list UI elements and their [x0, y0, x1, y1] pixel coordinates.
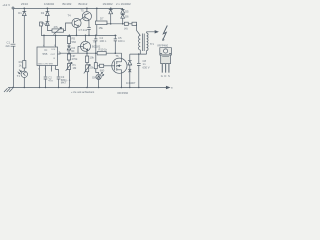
diode D7	[110, 7, 112, 9]
IC labels	[43, 48, 48, 56]
wire	[96, 8, 98, 21]
svg-text:G: G	[161, 74, 163, 78]
TO220 body	[161, 55, 171, 64]
svg-text:15k: 15k	[99, 26, 104, 30]
svg-text:1N4002: 1N4002	[103, 2, 114, 6]
labels	[2, 2, 131, 7]
svg-text:+12 V: +12 V	[2, 3, 10, 7]
zener D1	[22, 8, 26, 61]
wire HT output arrow	[147, 32, 158, 33]
svg-text:100 n: 100 n	[118, 39, 125, 43]
phototransistor T1	[21, 71, 27, 77]
svg-text:OUT: OUT	[51, 54, 56, 56]
resistor R7	[68, 52, 70, 54]
svg-text:BC182: BC182	[63, 2, 72, 6]
trimmer P1	[52, 29, 64, 32]
node rail junction	[47, 7, 49, 9]
LED D8	[96, 69, 99, 75]
mosfet T6	[112, 58, 127, 73]
wire wiper to T4 base	[64, 23, 72, 31]
svg-text:T3*T40: T3*T40	[67, 51, 75, 53]
svg-text:D5: D5	[125, 9, 129, 13]
TO220 tab	[160, 48, 172, 55]
wire	[23, 68, 25, 71]
bottom rail ground	[8, 87, 169, 89]
capacitor C9 stub	[40, 26, 42, 35]
svg-text:Tr1: Tr1	[150, 42, 154, 46]
IC1 555	[37, 47, 58, 66]
transistor T3	[81, 41, 91, 51]
svg-text:T6: T6	[115, 54, 119, 58]
resistor R8	[86, 56, 89, 63]
capacitor C6	[95, 53, 97, 62]
trimmer P3	[86, 63, 88, 65]
diode D3	[46, 21, 53, 30]
svg-text:47k: 47k	[54, 25, 59, 29]
svg-text:1N4007: 1N4007	[126, 81, 136, 85]
svg-text:T1: T1	[17, 74, 21, 78]
wire	[12, 46, 14, 87]
resistor R10	[97, 52, 106, 55]
svg-text:T3: T3	[93, 40, 97, 44]
top rail +12V	[13, 7, 123, 9]
bottom rail arrowhead	[166, 86, 169, 88]
diode D5	[121, 8, 125, 13]
svg-text:1N4002: 1N4002	[44, 2, 55, 6]
capacitor C7	[87, 19, 90, 35]
capacitor C5	[114, 35, 117, 53]
svg-text:10k: 10k	[90, 56, 95, 60]
svg-text:470k: 470k	[72, 57, 78, 61]
capacitor C2	[44, 77, 48, 88]
svg-text:560: 560	[72, 40, 77, 44]
node rail junction	[23, 7, 25, 9]
svg-text:2 x 1N4002: 2 x 1N4002	[116, 2, 131, 6]
svg-text:100 n: 100 n	[100, 39, 107, 43]
svg-text:(H): (H)	[124, 26, 128, 30]
IC bottom pins	[40, 66, 56, 88]
svg-text:D6: D6	[125, 14, 129, 18]
svg-text:D7: D7	[100, 17, 104, 21]
svg-text:MKT: MKT	[61, 81, 67, 85]
trimmer P2	[68, 60, 70, 64]
transistor T5	[82, 12, 91, 21]
svg-text:GND CTR THR: GND CTR THR	[38, 64, 53, 66]
transformer Tr1 secondary	[147, 33, 148, 50]
diode D2	[46, 8, 50, 21]
svg-text:IRFP460: IRFP460	[158, 44, 169, 48]
wire to primary	[137, 24, 141, 36]
IC out pin	[58, 52, 61, 54]
svg-text:T5: T5	[81, 9, 85, 13]
wire left column	[12, 8, 14, 43]
svg-text:D4: D4	[72, 46, 76, 50]
node rail dots	[12, 87, 13, 88]
svg-text:« zie ook achterkant: « zie ook achterkant	[71, 90, 94, 94]
svg-text:630 V: 630 V	[143, 65, 150, 69]
svg-text:DIS: DIS	[52, 49, 56, 51]
svg-text:T4: T4	[68, 14, 72, 18]
node rail junction	[96, 7, 98, 9]
resistor R3	[124, 22, 128, 25]
varistor X mark	[128, 69, 131, 72]
wire	[107, 23, 124, 24]
resistor R4	[132, 22, 137, 25]
svg-text:C1: C1	[7, 41, 11, 45]
svg-text:555: 555	[43, 52, 48, 56]
wire	[23, 78, 25, 88]
capacitor C8	[137, 54, 141, 87]
transistor T4	[72, 18, 81, 27]
node +12V terminal	[12, 7, 14, 9]
wire transformer bottoms	[130, 50, 147, 54]
svg-text:ZF10: ZF10	[21, 2, 28, 6]
wire line B	[60, 52, 97, 54]
svg-text:22n: 22n	[6, 44, 11, 48]
svg-text:680: 680	[100, 68, 105, 72]
capacitor C4	[94, 35, 97, 53]
svg-text:S: S	[168, 74, 170, 78]
svg-text:47n: 47n	[48, 78, 53, 82]
wire line A	[41, 34, 117, 36]
resistor R9	[97, 65, 99, 67]
svg-text:25k: 25k	[90, 66, 95, 70]
svg-text:D2: D2	[41, 11, 45, 15]
IC top pins	[44, 35, 56, 47]
TO220 legs	[162, 64, 169, 73]
resistor R5	[68, 35, 70, 37]
diode D6	[121, 13, 125, 24]
capacitor C1	[11, 44, 16, 46]
svg-text:BC212: BC212	[79, 2, 88, 6]
svg-text:D8: D8	[92, 75, 96, 79]
diode D4	[67, 44, 70, 53]
svg-text:D1: D1	[18, 11, 22, 15]
wire	[96, 25, 98, 35]
capacitor C3	[56, 70, 61, 88]
node A dots	[43, 35, 45, 37]
svg-text:IRFP460: IRFP460	[118, 91, 129, 95]
svg-text:47n: 47n	[44, 22, 49, 26]
ground	[4, 88, 13, 92]
svg-text:D: D	[164, 74, 166, 78]
transformer Tr1 primary	[139, 36, 141, 50]
transformer core	[143, 34, 145, 52]
resistor R1	[23, 61, 26, 69]
diode D10	[128, 54, 132, 87]
svg-text:C7 2n2: C7 2n2	[79, 28, 88, 32]
wire to T6 drain	[106, 53, 121, 58]
spark	[163, 26, 168, 41]
svg-text:R10 1k: R10 1k	[99, 48, 108, 52]
resistor R2	[96, 21, 108, 25]
